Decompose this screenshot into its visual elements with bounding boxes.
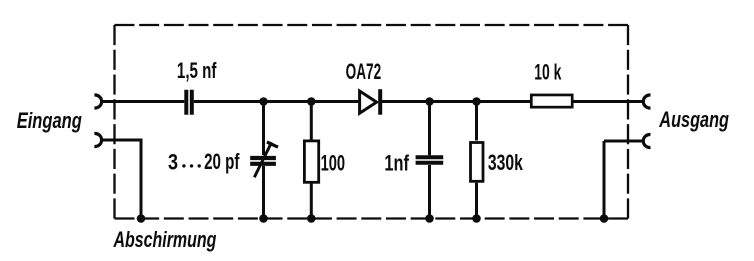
output terminal lower arc — [643, 135, 650, 148]
trimmer capacitor plates — [250, 158, 276, 164]
svg-text:Eingang: Eingang — [17, 109, 82, 134]
resistor R2 330k branch bottom wire — [475, 183, 478, 219]
wire: diode to resistor 10k — [382, 100, 531, 103]
shield box dashed border right — [627, 25, 629, 219]
input terminal lower arc — [94, 134, 101, 147]
wire: lower output terminal horizontal — [604, 140, 643, 143]
junction dot main wire / C 1nf — [425, 97, 434, 106]
wire: C1 to diode — [194, 100, 359, 103]
trimmer flag — [267, 142, 278, 147]
diode D1 OA72 triangle — [360, 91, 377, 113]
junction dot shield / R100 — [307, 214, 316, 223]
capacitor C2 1nf plates — [416, 157, 444, 162]
svg-text:1nf: 1nf — [384, 151, 409, 176]
svg-text:Abschirmung: Abschirmung — [113, 228, 217, 253]
svg-text:330k: 330k — [488, 150, 523, 175]
shield box dashed border left — [113, 25, 115, 219]
junction dot main wire / R330k — [472, 97, 481, 106]
resistor R1 100 branch top wire — [310, 102, 313, 140]
svg-text:100: 100 — [321, 151, 345, 176]
junction dot shield / output wire — [600, 214, 609, 223]
junction dot shield / trimmer — [259, 214, 268, 223]
svg-text:Ausgang: Ausgang — [658, 108, 729, 133]
trimmer capacitor branch bottom wire — [262, 166, 265, 219]
junction dot shield / R330k — [472, 214, 481, 223]
junction dot main wire / R100 — [307, 97, 316, 106]
output terminal upper arc — [643, 95, 650, 108]
capacitor C1 1,5nf plates — [186, 90, 192, 115]
svg-text:10 k: 10 k — [534, 59, 562, 84]
svg-text:1,5 nf: 1,5 nf — [177, 59, 217, 84]
wire: lower output vertical to shield — [603, 141, 606, 219]
wire: 10k to output arc — [574, 100, 644, 103]
resistor R3 10k body — [531, 95, 572, 107]
svg-text:OA72: OA72 — [346, 58, 381, 83]
resistor R1 100 body — [304, 141, 318, 182]
wire: input arc to capacitor C1 — [102, 100, 185, 103]
shield box dashed border top — [115, 24, 629, 26]
resistor R2 330k branch top wire — [475, 102, 478, 141]
wire: lower input vertical to shield — [140, 140, 143, 219]
junction dot main wire / trimmer — [259, 97, 268, 106]
diode D1 cathode bar — [378, 89, 382, 115]
capacitor C2 1nf branch bottom wire — [428, 165, 431, 219]
resistor R2 330k body — [471, 143, 484, 182]
svg-text:3: 3 — [168, 151, 178, 175]
junction dot shield / C 1nf — [425, 214, 434, 223]
input terminal upper arc — [94, 95, 101, 108]
resistor R1 100 branch bottom wire — [310, 184, 313, 219]
trimmer arrow shaft — [254, 142, 271, 177]
wire: lower input terminal horizontal — [102, 139, 143, 142]
shield box dashed border bottom (shield return wire) — [115, 217, 629, 219]
junction dot shield / input wire — [137, 214, 146, 223]
capacitor C2 1nf branch top wire — [428, 102, 431, 156]
svg-text:20 pf: 20 pf — [204, 150, 240, 175]
trimmer capacitor branch top wire — [262, 102, 265, 156]
